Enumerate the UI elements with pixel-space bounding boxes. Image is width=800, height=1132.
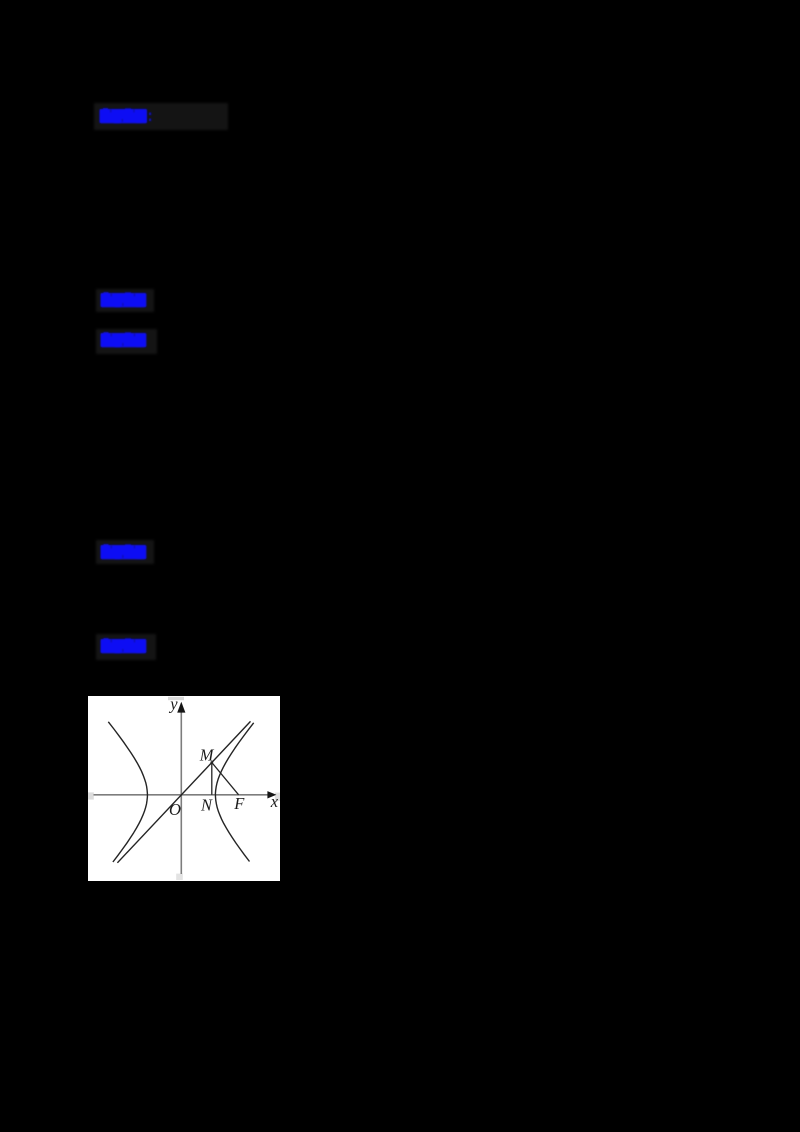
blue label 3 [99,330,151,350]
selection handle top-center [168,696,184,699]
selection handle left-center [88,792,94,799]
white diagram box [88,696,280,881]
svg-text:M: M [199,745,215,764]
selection handle right-center [275,792,280,800]
blue label 4 [99,542,151,562]
svg-text:x: x [270,791,279,810]
faint artifact box line 1 [94,103,228,130]
point M dot [210,761,213,764]
segment M-F [212,762,239,794]
faint artifact box line 4 [96,540,154,564]
svg-text:N: N [200,795,213,814]
y-axis arrowhead [177,701,185,712]
faint artifact box line 2 [96,289,154,312]
x-axis [94,793,270,795]
segment M-N [211,762,213,794]
blue label 2 [99,290,151,310]
svg-text:O: O [169,800,181,819]
blue label 1 [98,106,156,126]
x-axis arrowhead [267,791,276,798]
faint artifact box line 3 [96,329,157,354]
left hyperbola branch [108,721,147,861]
blue label 5 [99,636,151,656]
right hyperbola branch [215,722,253,861]
y-axis [180,703,182,874]
faint artifact box line 5 [96,634,156,660]
hidden template for labels 3-5 [0,0,1,1]
svg-text:F: F [233,794,245,813]
selection handle bottom-center [176,873,183,879]
asymptote line through origin [117,721,250,862]
svg-text:y: y [168,696,178,714]
